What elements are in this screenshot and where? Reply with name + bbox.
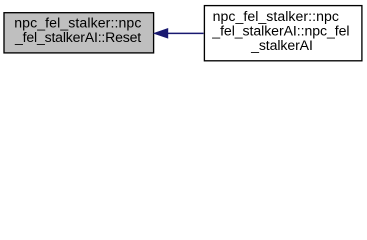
node Node1 (npc_fel_stalker::npc_fel_stalkerAI::Reset, current node, grey fill) — [4, 13, 154, 53]
arrowhead at Node1 — [154, 29, 167, 38]
wire (edge stem) — [167, 32, 203, 34]
svg-text:_stalkerAI: _stalkerAI — [250, 37, 313, 53]
svg-text:_fel_stalkerAI::Reset: _fel_stalkerAI::Reset — [14, 29, 141, 45]
node Node2 (npc_fel_stalker::npc_fel_stalkerAI::npc_fel_stalkerAI, caller, white fill) — [204, 6, 362, 61]
svg-text:npc_fel_stalker::npc: npc_fel_stalker::npc — [213, 8, 339, 24]
svg-text:_fel_stalkerAI::npc_fel: _fel_stalkerAI::npc_fel — [211, 22, 349, 38]
svg-text:npc_fel_stalker::npc: npc_fel_stalker::npc — [14, 15, 141, 31]
edge Node2->Node1 (caller arrow, midnightblue) — [154, 29, 203, 38]
